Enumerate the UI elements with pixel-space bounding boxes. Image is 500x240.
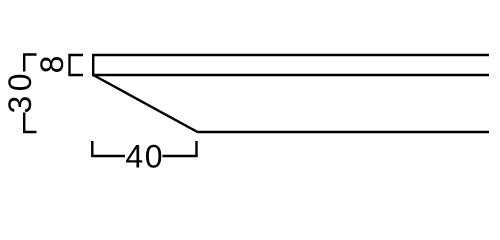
svg-text:30: 30: [2, 69, 38, 114]
dimension bracket 8 (vertical with two ticks): [70, 55, 84, 75]
dimension 40 right segment with right tick: [163, 141, 197, 156]
dimension 30 vertical lower segment with bottom tick: [24, 113, 36, 133]
svg-text:8: 8: [34, 56, 70, 74]
dimension 30 vertical upper segment with top tick: [24, 55, 36, 72]
dimension 40 left segment with left tick: [92, 141, 125, 156]
taper diagonal line: [93, 75, 197, 132]
lower horizontal line: [198, 131, 490, 133]
svg-text:40: 40: [125, 138, 164, 174]
top flange outline (top edge, left edge, bottom edge): [93, 55, 489, 75]
